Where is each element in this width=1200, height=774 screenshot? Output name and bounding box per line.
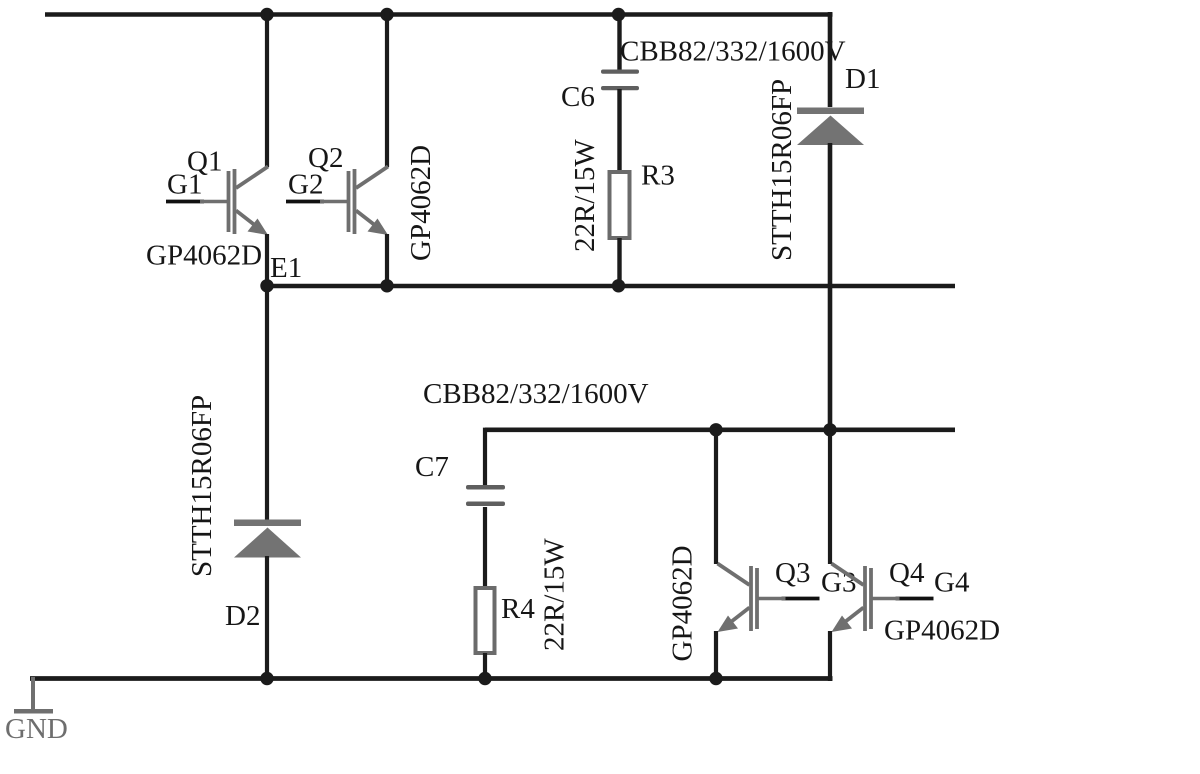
resistor R4 (476, 588, 495, 653)
wire Q4 emitter drop (828, 631, 832, 681)
svg-text:R4: R4 (501, 593, 535, 625)
node E1 junction Q1 (260, 279, 273, 292)
wire C6 to R3 (617, 89, 621, 172)
svg-text:D2: D2 (225, 600, 260, 632)
wire C7 to R4 (483, 507, 487, 587)
capacitor C7 (466, 485, 505, 506)
svg-text:G2: G2 (288, 169, 323, 201)
svg-text:GND: GND (5, 713, 68, 745)
diode D2 (234, 520, 301, 558)
wire Q4 collector drop (828, 430, 832, 564)
wire Q3 collector drop (714, 428, 718, 564)
node junction D2 bottom (260, 672, 273, 685)
node junction R3 bottom (612, 279, 625, 292)
transistor Q4 (832, 564, 934, 633)
wire D2 anode to bottom bus (265, 556, 269, 678)
svg-text:C7: C7 (415, 451, 449, 483)
diode D1 (797, 108, 864, 146)
wire Q2 emitter drop (385, 234, 389, 288)
wire C7 top lead (483, 428, 487, 486)
wire D1 anode down to mid bus (828, 143, 833, 432)
wire Q3 emitter drop (714, 631, 718, 679)
svg-text:G3: G3 (821, 567, 856, 599)
transistor Q1 (166, 167, 268, 236)
node junction top Q2 (380, 8, 393, 21)
svg-text:Q3: Q3 (775, 557, 810, 589)
wire top bus (45, 12, 833, 17)
wire D2 cathode from E1 (265, 287, 269, 520)
transistor Q3 (718, 564, 820, 633)
svg-text:GP4062D: GP4062D (405, 145, 437, 261)
node junction Q3 bottom (709, 672, 722, 685)
svg-text:G1: G1 (167, 169, 202, 201)
node junction top Q1 (260, 8, 273, 21)
wire Q1 emitter drop (265, 234, 269, 288)
wire bottom bus (30, 676, 833, 681)
svg-text:22R/15W: 22R/15W (539, 538, 571, 651)
wire D1 cathode from top bus (828, 12, 833, 107)
node junction Q3 collector (709, 423, 722, 436)
svg-text:C6: C6 (561, 81, 595, 113)
svg-text:D1: D1 (845, 63, 880, 95)
capacitor C6 (601, 70, 639, 91)
svg-text:R3: R3 (641, 160, 675, 192)
wire E1 bus (267, 284, 955, 289)
svg-text:STTH15R06FP: STTH15R06FP (186, 395, 218, 577)
wire mid bus (485, 427, 955, 432)
wire R4 bottom lead (483, 653, 487, 679)
svg-text:22R/15W: 22R/15W (569, 139, 601, 252)
svg-text:Q4: Q4 (889, 557, 925, 589)
svg-text:GP4062D: GP4062D (146, 240, 262, 272)
svg-text:G4: G4 (934, 567, 970, 599)
svg-text:E1: E1 (270, 252, 302, 284)
node junction Q2 emitter (380, 279, 393, 292)
ground (14, 677, 53, 714)
wire C6 top lead (617, 12, 621, 70)
svg-text:GP4062D: GP4062D (667, 545, 699, 661)
wire R3 bottom lead (617, 238, 621, 288)
node junction Q4 collector / D1 anode (823, 423, 836, 436)
node junction R4 bottom (478, 672, 491, 685)
svg-text:CBB82/332/1600V: CBB82/332/1600V (423, 378, 649, 410)
wire Q1 collector drop (265, 12, 269, 167)
svg-text:STTH15R06FP: STTH15R06FP (766, 79, 798, 261)
node junction top C6 (612, 8, 625, 21)
resistor R3 (610, 172, 630, 238)
svg-text:GP4062D: GP4062D (884, 615, 1000, 647)
transistor Q2 (286, 167, 388, 236)
svg-text:CBB82/332/1600V: CBB82/332/1600V (620, 36, 846, 68)
wire Q2 collector drop (385, 12, 389, 167)
